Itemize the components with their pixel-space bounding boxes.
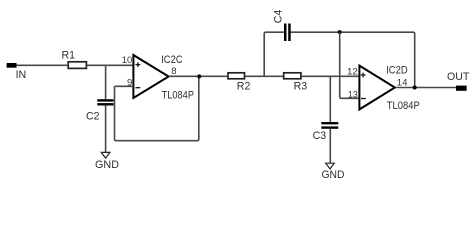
ground GND left <box>95 152 119 170</box>
wire IC2D output to OUT <box>396 87 457 89</box>
svg-text:TL084P: TL084P <box>387 100 420 112</box>
wire node up to C4 <box>264 32 284 76</box>
wire C3 to ground <box>329 129 331 164</box>
wire R1 to IC2C pin 10 <box>87 64 134 66</box>
svg-text:R3: R3 <box>294 81 308 93</box>
svg-text:TL084P: TL084P <box>162 90 194 102</box>
junction on top wire <box>338 30 342 34</box>
feedback wire IC2C output to pin 9 <box>115 77 199 141</box>
wire node to C2 <box>105 65 107 99</box>
wire C4 to IC2D output (top) <box>291 32 415 87</box>
op-amp U1 IC2C <box>133 55 168 98</box>
wire top junction to pin 13 <box>340 32 360 98</box>
op-amp U2 IC2D <box>359 66 394 110</box>
resistor R1 <box>62 50 87 69</box>
capacitor C3 <box>313 122 339 142</box>
svg-text:IC2C: IC2C <box>161 54 183 66</box>
wire IN to R1 <box>17 64 68 66</box>
junction at IC2D output <box>413 86 417 90</box>
svg-text:GND: GND <box>322 169 345 181</box>
wire R3 to IC2D pin 12 <box>302 75 359 77</box>
wire node to C3 <box>329 76 331 122</box>
terminal IN <box>7 63 27 81</box>
svg-text:10: 10 <box>122 55 133 66</box>
wire C2 to ground <box>105 106 107 153</box>
svg-text:R1: R1 <box>62 50 76 62</box>
svg-text:OUT: OUT <box>447 71 470 83</box>
capacitor C4 <box>273 10 291 41</box>
svg-text:C3: C3 <box>313 130 327 142</box>
capacitor C2 <box>86 99 114 122</box>
wire IC2C pin 9 <box>115 85 134 87</box>
svg-text:GND: GND <box>95 159 119 171</box>
svg-text:IN: IN <box>16 69 27 81</box>
wire IC2C output to R2 <box>169 75 227 77</box>
wire R2 to R3 <box>245 75 283 77</box>
svg-text:IC2D: IC2D <box>386 64 408 76</box>
svg-text:12: 12 <box>347 66 358 77</box>
junction at IC2C output <box>197 74 201 78</box>
svg-text:8: 8 <box>171 66 176 77</box>
svg-text:R2: R2 <box>237 81 251 93</box>
svg-text:13: 13 <box>348 89 358 100</box>
resistor R3 <box>284 73 308 93</box>
svg-text:C4: C4 <box>273 10 285 24</box>
svg-text:C2: C2 <box>86 110 100 122</box>
resistor R2 <box>228 73 250 93</box>
terminal OUT <box>447 71 470 91</box>
ground GND right <box>322 163 345 181</box>
